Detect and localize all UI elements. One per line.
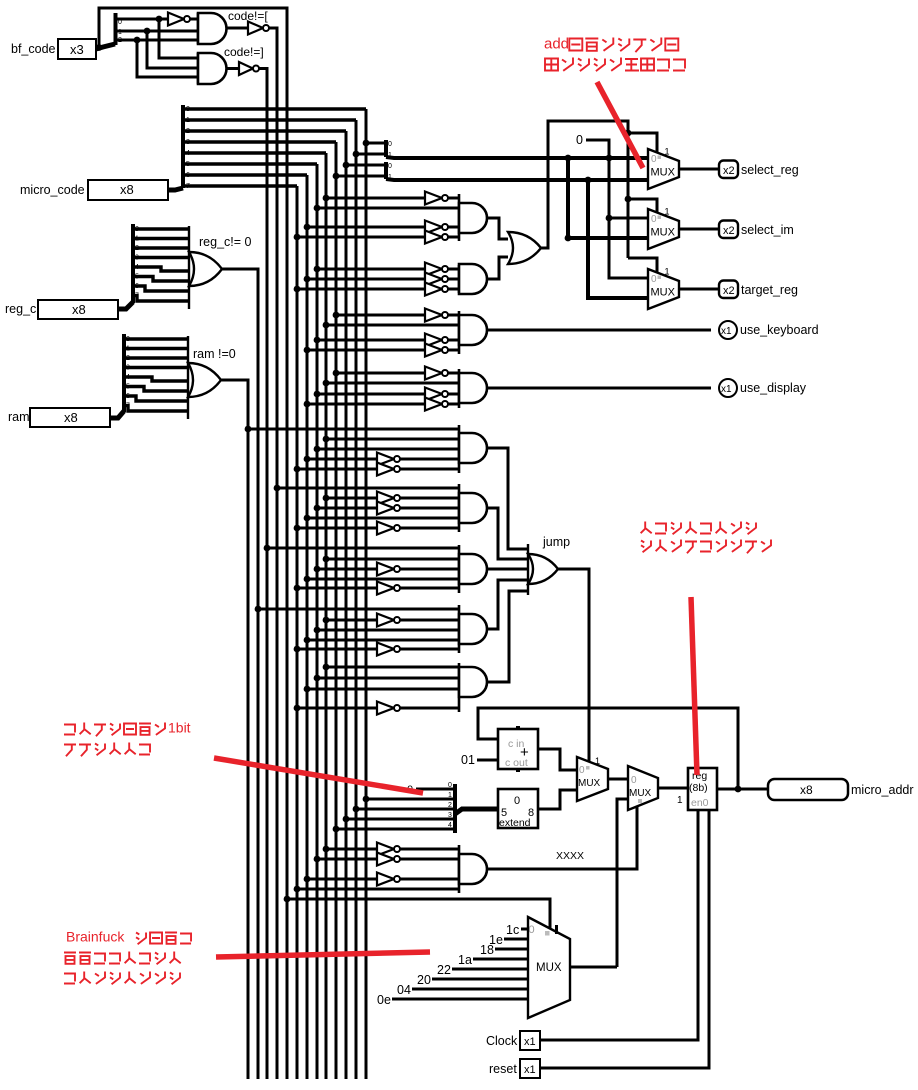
node tap (307,518): [304, 515, 311, 522]
wire row y=350 from bus: [307, 349, 425, 352]
node tap (317,630): [314, 627, 321, 634]
wire reg_c to splitter: [118, 302, 133, 309]
wire bus column 9 (x=336): [335, 142, 338, 1079]
label use_keyboard: [740, 323, 819, 337]
node tap (297,708): [294, 705, 301, 712]
node tap (307,579): [304, 576, 311, 583]
wire bus column 5 (x=297): [296, 186, 299, 1079]
node bf bit2 tap: [134, 37, 141, 44]
svg-text:code!=]: code!=]: [224, 45, 264, 59]
wire MUX1 out to MUX2: [608, 778, 628, 781]
wire bf_code to splitter: [96, 44, 115, 49]
node tap (336,315): [333, 312, 340, 319]
node tap (297,889): [294, 886, 301, 893]
wire 01 to adder: [477, 759, 498, 762]
wire row y=325 from bus: [326, 324, 459, 327]
wire reg_c bit1 row: [133, 236, 189, 243]
inverter on row y=279: [425, 273, 448, 286]
svg-text:x8: x8: [120, 182, 134, 197]
inverter on row y=569: [377, 563, 400, 576]
wire row y=198 from bus: [326, 197, 425, 200]
inverter on row y=588: [377, 582, 400, 595]
wire row y=269 from bus: [317, 268, 425, 271]
wire inverter out to gate y=498: [400, 497, 459, 500]
wire select line taps MUX1: [628, 133, 657, 152]
wire row y=559 from bus: [326, 558, 459, 561]
wire inverter out to gate y=508: [400, 507, 459, 510]
svg-text:x3: x3: [70, 42, 84, 57]
node tap (297,528): [294, 525, 301, 532]
svg-text:(8b): (8b): [689, 782, 708, 794]
splitter ram 8-bit: [122, 334, 126, 412]
svg-text:6: 6: [126, 393, 130, 400]
wire inverter out to gate y=227: [448, 226, 459, 229]
wire target_reg MUX output: [679, 288, 719, 291]
node 0-net tap MUX1: [606, 155, 613, 162]
svg-text:MUX: MUX: [651, 227, 676, 239]
inverter on row y=350: [425, 344, 448, 357]
svg-text:reg_c!= 0: reg_c!= 0: [199, 235, 252, 249]
inverter on row y=404: [425, 398, 448, 411]
wire merger row bit2: [356, 808, 455, 811]
wire gate A output to OR: [487, 218, 508, 239]
svg-text:1: 1: [126, 346, 130, 353]
svg-text:MUX: MUX: [651, 287, 676, 299]
label code!=]: [224, 45, 264, 59]
wire 0e to MUX: [392, 998, 528, 1001]
node tap (307,459): [304, 456, 311, 463]
wire bundleB drop to MUX3 input1: [588, 180, 648, 298]
svg-text:select_im: select_im: [741, 223, 794, 237]
wire ram bit1 row: [124, 346, 188, 353]
node tap (326,620): [323, 617, 330, 624]
wire ram bit0 row: [124, 336, 188, 343]
wire bus column 4 (x=287): [286, 8, 289, 1079]
wire bus column 7 (x=317): [316, 164, 319, 1079]
wire bus column 10 (x=346): [345, 131, 348, 1079]
node tap (326,849): [323, 846, 330, 853]
svg-text:use_display: use_display: [740, 381, 807, 395]
inverter on row y=198: [425, 192, 448, 205]
wire jump output to MUX select: [558, 569, 589, 761]
node tap (317,449): [314, 446, 321, 453]
wire AND to inverter: [227, 67, 239, 70]
svg-text:add: add: [544, 35, 569, 52]
svg-text:2: 2: [126, 355, 130, 362]
wire bottom-mux feed to MUX2 input: [617, 799, 628, 967]
svg-text:x1: x1: [524, 1064, 536, 1076]
wire ram to splitter: [110, 411, 124, 418]
wire select_reg MUX output: [679, 168, 719, 171]
OR-input bar ram: [187, 336, 189, 419]
svg-text:1: 1: [665, 207, 670, 217]
wire select_im MUX output: [679, 228, 719, 231]
node tap (307,640): [304, 637, 311, 644]
wire inverter out to gate y=350: [448, 349, 459, 352]
wire select line taps MUX3: [628, 258, 657, 272]
svg-text:0e: 0e: [377, 993, 391, 1007]
node tap (307,879): [304, 876, 311, 883]
annotation text brainfuck addresses (red): [66, 929, 191, 945]
inverter on row y=528: [377, 522, 400, 535]
label use_display: [740, 381, 807, 395]
wire merger row bit3: [346, 818, 455, 821]
inverter on row y=289: [425, 283, 448, 296]
wire row y=498 from bus: [326, 497, 377, 500]
output port select_reg (x2): [719, 161, 738, 179]
node tap (326,667): [323, 664, 330, 671]
wire inverter out to gate y=849: [400, 848, 459, 851]
label select_reg: [741, 163, 799, 177]
wire long row c2 to gate G: [267, 547, 459, 550]
svg-text:2: 2: [135, 245, 139, 252]
wire 20 to MUX: [432, 978, 528, 981]
node ram tap: [245, 426, 252, 433]
node bundleA tap: [565, 155, 572, 162]
input port reg_c (x8): [38, 300, 118, 319]
node tap (317,508): [314, 505, 321, 512]
wire const0 to merger: [416, 788, 455, 791]
node tap (307,689): [304, 686, 311, 693]
svg-text:x1: x1: [721, 326, 732, 337]
label reset: [489, 1062, 517, 1076]
svg-text:micro_addr: micro_addr: [851, 783, 914, 797]
label Clock: [486, 1034, 518, 1048]
wire bus column 2 (x=267): [266, 69, 269, 1079]
inverter on row y=498: [377, 492, 400, 505]
inverter on row y=373: [425, 367, 448, 380]
AND gate I (jump decode 5): [459, 663, 487, 712]
svg-text:1: 1: [186, 117, 190, 124]
svg-text:0: 0: [651, 274, 657, 285]
label select_im: [741, 223, 794, 237]
wire reg_c bit4 row: [133, 264, 189, 271]
wire row y=579 from bus: [307, 578, 459, 581]
inverter on row y=849: [377, 843, 400, 856]
node tap (297,469): [294, 466, 301, 473]
node merger tap bit4: [333, 826, 340, 833]
constant 0e: [377, 993, 391, 1007]
node tap (297,289): [294, 286, 301, 293]
wire row y=528 from bus: [297, 527, 377, 530]
wire bus column 8 (x=326): [325, 153, 328, 1079]
wire gate E output to jump OR: [487, 448, 528, 549]
annotation arrow brainfuck addresses (red): [216, 952, 430, 957]
splitter bf_code 3-bit: [116, 13, 123, 45]
wire merger2 bit1 from bus: [336, 175, 386, 178]
svg-text:1: 1: [677, 795, 683, 806]
node tap (336,373): [333, 370, 340, 377]
wire feedback reg to adder: [478, 708, 738, 789]
svg-text:0: 0: [529, 924, 535, 936]
inverter code!=] output: [239, 62, 259, 75]
wire micro_code bit3 row to bus: [183, 139, 336, 146]
label micro_addr: [851, 783, 914, 797]
constant 20: [417, 973, 431, 987]
wire inverter out to gate y=649: [400, 648, 459, 651]
svg-text:5: 5: [126, 384, 130, 391]
svg-text:MUX: MUX: [536, 962, 562, 974]
wire ram!=0 long row to gate E: [248, 428, 459, 431]
svg-text:6: 6: [186, 172, 190, 179]
label ram: [8, 410, 30, 424]
wire ram bit7 row: [124, 403, 188, 412]
wire 22 to MUX: [452, 968, 528, 971]
wire reg_c!=0 output to bus col1: [222, 269, 258, 271]
inverter on row y=315: [425, 309, 448, 322]
wire micro_code to splitter: [168, 188, 183, 190]
wire ram bit4 row: [124, 374, 188, 381]
wire row y=708 from bus: [297, 707, 377, 710]
node merger tap bit1: [363, 796, 370, 803]
wire row y=404 from bus: [307, 403, 425, 406]
wire reg_c bit5 row: [133, 274, 189, 282]
node tap (297,588): [294, 585, 301, 592]
svg-text:0: 0: [651, 214, 657, 225]
wire inverter out to gate y=459: [400, 458, 459, 461]
svg-text:3: 3: [186, 139, 190, 146]
wire row y=227 from bus: [307, 226, 425, 229]
wire inverter out to gate y=198: [448, 197, 459, 200]
node tap (307,350): [304, 347, 311, 354]
wire row y=879 from bus: [307, 878, 377, 881]
node tap m2: [343, 162, 350, 169]
svg-text:XXXX: XXXX: [556, 850, 584, 862]
wire inverter out to gate y=879: [400, 878, 459, 881]
wire bf bit0 row: [115, 18, 168, 21]
svg-text:7: 7: [186, 183, 190, 190]
AND gate E (jump decode 1): [459, 425, 487, 473]
wire row y=518 from bus: [307, 517, 459, 520]
svg-text:MUX: MUX: [651, 167, 676, 179]
node select tap 2: [625, 196, 632, 203]
constant 1e: [489, 933, 503, 947]
node merger tap bit3: [343, 816, 350, 823]
node bf_code junction: [96, 44, 103, 51]
constant 1c: [506, 923, 519, 937]
svg-text:use_keyboard: use_keyboard: [740, 323, 819, 337]
wire reg_c bit3 row: [133, 255, 189, 262]
wire row y=459 from bus: [307, 458, 377, 461]
wire row y=279 from bus: [307, 278, 425, 281]
label jump: [542, 535, 570, 549]
inverter on bf bit0: [168, 13, 190, 26]
OR gate select-enable: [508, 232, 541, 264]
mux U_target_reg: [648, 267, 679, 310]
node 0-net tap MUX2: [606, 215, 613, 222]
svg-text:en0: en0: [691, 797, 709, 809]
svg-text:extend: extend: [499, 817, 531, 829]
label code!=[: [228, 9, 268, 23]
wire bundleA drop to MUX2 input1: [568, 158, 648, 238]
wire inverter out to gate y=620: [400, 619, 459, 622]
mux U_select_reg: [648, 147, 679, 190]
wire row y=849 from bus: [326, 848, 377, 851]
register reg(8b): [677, 768, 717, 810]
wire row y=237 from bus: [297, 236, 425, 239]
annotation text microcode program counter (red): [641, 522, 756, 535]
wire AND to inverter: [227, 27, 248, 30]
wire micro_code bit7 row to bus: [183, 183, 297, 190]
OR gate jump: [528, 554, 558, 584]
svg-text:4: 4: [135, 264, 139, 271]
node bundleA corner dot: [565, 235, 572, 242]
annotation arrow program counter (red): [691, 597, 697, 775]
node tap (297,649): [294, 646, 301, 653]
wire inverter out to gate y=404: [448, 403, 459, 406]
wire row y=689 from bus: [307, 688, 459, 691]
wire bottom MUX select from bus: [287, 899, 550, 928]
wire code!=[ to bus col3: [269, 28, 277, 29]
svg-text:20: 20: [417, 973, 431, 987]
svg-text:0: 0: [126, 336, 130, 343]
AND gate code!=[ (upper): [198, 13, 226, 44]
wire inverter out to gate y=340: [448, 339, 459, 342]
wire bundle B to MUX select_reg input1: [386, 179, 648, 180]
inverter on row y=459: [377, 453, 400, 466]
wire gate F output to jump OR: [487, 508, 528, 559]
wire bf bit1 row: [115, 30, 198, 33]
wire bottom MUX output: [570, 966, 617, 969]
wire micro_code bit4 row to bus: [183, 150, 326, 157]
input port bf_code (x3): [58, 39, 96, 59]
constant 0 (shift-in bit): [407, 784, 413, 796]
wire row y=620 from bus: [326, 619, 377, 622]
AND gate D (use_display): [459, 369, 487, 408]
input port micro_code (x8): [88, 180, 168, 200]
wire ram bit6 row: [124, 393, 188, 401]
OR gate reg_c!=0: [189, 252, 222, 286]
wire bf bit2 row: [115, 39, 198, 42]
node tap (326,383): [323, 380, 330, 387]
AND gate H (jump decode 4): [459, 605, 487, 653]
svg-text:bf_code: bf_code: [11, 42, 56, 56]
inverter on row y=227: [425, 221, 448, 234]
svg-text:1: 1: [135, 236, 139, 243]
svg-text:x2: x2: [723, 225, 735, 237]
annotation arrow jump shift (red): [214, 758, 423, 793]
OR-input bar reg_c: [188, 226, 190, 309]
svg-text:1: 1: [595, 756, 600, 766]
node tap (317,678): [314, 675, 321, 682]
AND gate F (jump decode 2): [459, 484, 487, 532]
wire micro_code bit5 row to bus: [183, 161, 317, 168]
svg-text:1a: 1a: [458, 953, 472, 967]
node select tap 1: [625, 130, 632, 137]
svg-text:MUX: MUX: [629, 788, 652, 799]
svg-text:1bit: 1bit: [168, 720, 191, 736]
svg-text:reg_c: reg_c: [5, 302, 36, 316]
constant 01: [461, 753, 475, 767]
wire row y=889 from bus: [297, 888, 459, 891]
AND gate code!=] (lower): [198, 53, 226, 84]
wire row y=588 from bus: [297, 587, 377, 590]
output port use_keyboard (x1): [719, 321, 737, 339]
svg-text:ram: ram: [8, 410, 30, 424]
wire micro_code bit2 row to bus: [183, 128, 346, 135]
svg-text:x2: x2: [723, 165, 735, 177]
wire reg output: [717, 788, 768, 791]
wire row y=630 from bus: [317, 629, 459, 632]
node tap (317,208): [314, 205, 321, 212]
node tap (326,325): [323, 322, 330, 329]
AND gate G (jump decode 3): [459, 545, 487, 593]
wire inverter out to gate y=237: [448, 236, 459, 239]
node tap (326,198): [323, 195, 330, 202]
wire bus column 12 (x=366): [365, 109, 368, 1079]
OR-input bar jump: [527, 544, 529, 595]
node tap m0: [363, 140, 370, 147]
wire inverter out to gate y=315: [448, 314, 459, 317]
svg-text:18: 18: [480, 943, 494, 957]
svg-text:x8: x8: [72, 302, 86, 317]
inverter on row y=269: [425, 263, 448, 276]
label reg_c: [5, 302, 36, 316]
wire row y=667 from bus: [326, 666, 459, 669]
inverter on row y=879: [377, 873, 400, 886]
wire merger1 bit0 from bus: [366, 142, 386, 145]
wire row y=449 from bus: [317, 448, 459, 451]
mux U_jump: [577, 756, 608, 801]
node tap (326,439): [323, 436, 330, 443]
wire 1c to MUX: [521, 928, 528, 931]
svg-text:ram !=0: ram !=0: [193, 347, 236, 361]
wire row y=340 from bus: [317, 339, 425, 342]
wire bit0 drop to lower AND: [159, 19, 198, 58]
label target_reg: [741, 283, 798, 297]
wire row y=394 from bus: [317, 393, 425, 396]
wire reg_c bit6 row: [133, 283, 189, 291]
wire inverter out to gate y=859: [400, 858, 459, 861]
wire select line taps MUX2: [628, 199, 657, 212]
wire merger1 bit1 from bus: [356, 153, 386, 156]
wire inverter out to gate y=528: [400, 527, 459, 530]
inverter on row y=708: [377, 702, 400, 715]
svg-text:1: 1: [665, 147, 670, 157]
wire bus column 1 (x=258): [257, 269, 260, 1079]
wire bus column 11 (x=356): [355, 120, 358, 1079]
constant 0 (select_reg default): [576, 133, 583, 147]
node tap (307,227): [304, 224, 311, 231]
wire row y=469 from bus: [297, 468, 377, 471]
svg-text:6: 6: [135, 283, 139, 290]
node tap c3: [274, 485, 281, 492]
wire gate B output to OR: [487, 257, 508, 279]
wire XXXX output to MUX2 bottom select: [487, 806, 637, 869]
AND gate XXXX: [459, 845, 487, 893]
splitter micro_code 8-bit: [181, 105, 185, 188]
svg-text:target_reg: target_reg: [741, 283, 798, 297]
wire Clock to reg clock pin: [540, 810, 698, 1040]
mux U_select_im: [648, 207, 679, 250]
inverter on row y=859: [377, 853, 400, 866]
annotation arrow add-instruction (red): [597, 82, 643, 168]
inverter code!=[ output: [248, 22, 269, 35]
wire bus column 3 (x=277): [276, 27, 279, 1079]
svg-text:22: 22: [437, 963, 451, 977]
svg-text:0: 0: [631, 775, 637, 786]
node tap (317,859): [314, 856, 321, 863]
node bf bit1 tap: [144, 28, 151, 35]
svg-text:01: 01: [461, 753, 475, 767]
node tap (317,394): [314, 391, 321, 398]
annotation text jump shift (red): [64, 720, 191, 737]
wire ram!=0 output to bus col0: [221, 380, 248, 382]
wire micro_code bit1 row to bus: [183, 117, 356, 124]
svg-text:select_reg: select_reg: [741, 163, 799, 177]
wire code!=] to bus col2: [259, 69, 267, 72]
annotation text add-instruction (red): [544, 35, 678, 52]
